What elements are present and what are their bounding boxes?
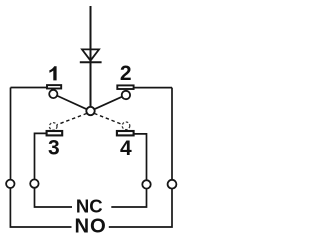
contact 1 fixed pad bbox=[47, 85, 61, 88]
svg-text:4: 4 bbox=[120, 137, 132, 160]
common node bbox=[86, 107, 94, 115]
right outer rail wire bbox=[171, 88, 173, 180]
actuator bar bbox=[80, 61, 102, 63]
contact 2 fixed pad bbox=[117, 85, 133, 89]
contact 3 fixed pad bbox=[47, 131, 63, 135]
wire contact4 to inner-right rail bbox=[134, 134, 147, 181]
terminal circle outer-right bbox=[168, 180, 177, 189]
blade wire contact1 to common node bbox=[57, 96, 87, 110]
contact 4 moving ball (alternate position, dashed) bbox=[122, 122, 130, 130]
dashed blade contact 4 bbox=[94, 113, 122, 124]
contact 2 moving ball bbox=[122, 91, 130, 99]
contact 4 fixed pad bbox=[117, 131, 134, 135]
left outer rail wire bbox=[10, 88, 12, 180]
blade wire contact2 to common node bbox=[94, 97, 122, 110]
svg-text:NO: NO bbox=[74, 215, 106, 237]
actuator stem wire bbox=[90, 6, 92, 107]
terminal circle inner-left bbox=[30, 179, 38, 187]
actuator triangle bbox=[82, 49, 99, 60]
label 1 bbox=[49, 66, 56, 80]
contact 1 moving ball bbox=[49, 90, 57, 98]
wire terminal2 to right rail bbox=[134, 87, 172, 89]
svg-text:NC: NC bbox=[76, 195, 103, 216]
svg-text:2: 2 bbox=[120, 62, 132, 85]
svg-text:3: 3 bbox=[48, 137, 60, 160]
terminal circle inner-right bbox=[142, 180, 150, 188]
NC bus left wire bbox=[35, 188, 73, 207]
dashed blade contact 3 bbox=[57, 113, 87, 124]
NC bus right wire bbox=[111, 188, 146, 207]
NO bus right wire bbox=[109, 188, 172, 227]
NO bus left wire bbox=[10, 188, 71, 227]
wire terminal1 to left rail bbox=[11, 87, 48, 89]
terminal circle outer-left bbox=[6, 180, 14, 188]
wire contact3 to inner-left rail bbox=[35, 133, 48, 179]
contact 3 moving ball (alternate position, dashed) bbox=[49, 123, 57, 131]
